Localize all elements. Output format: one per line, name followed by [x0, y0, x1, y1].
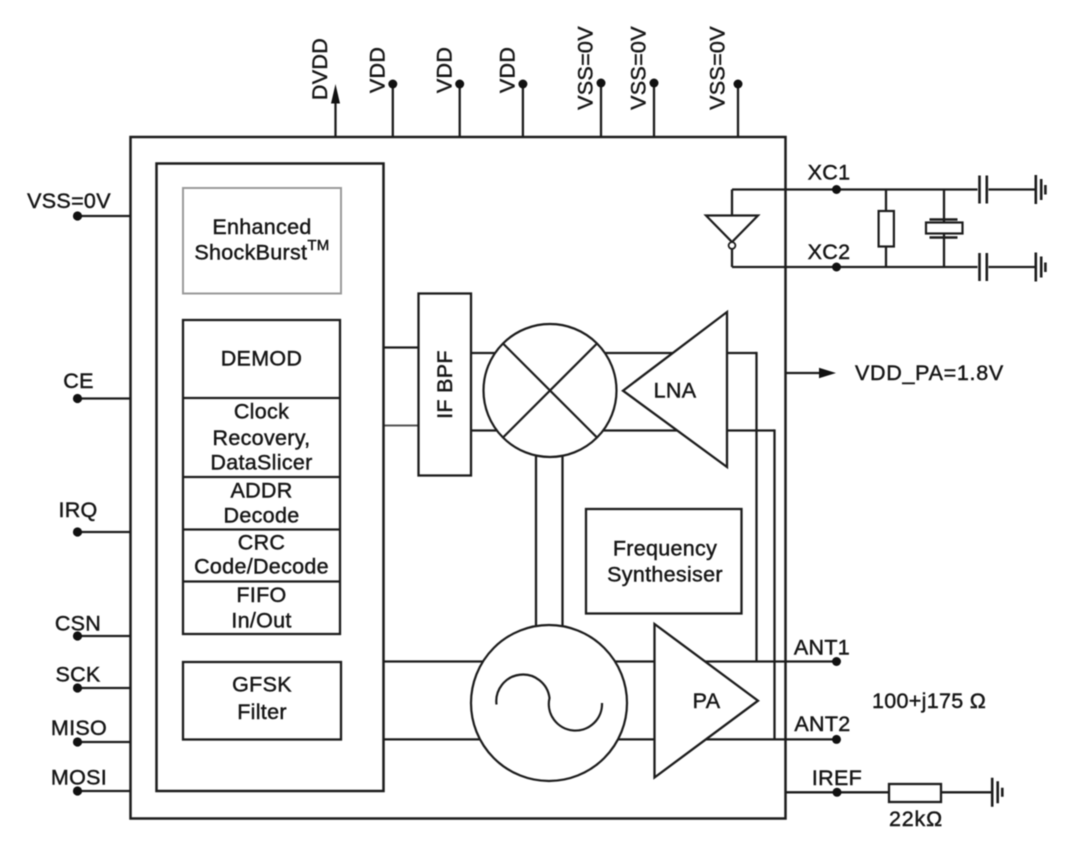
crystal Y1 top plate — [930, 218, 958, 220]
svg-text:In/Out: In/Out — [231, 609, 291, 633]
wire mixer LO left vertical — [535, 445, 537, 640]
VDD_PA arrowhead — [819, 368, 836, 378]
wire ANT1 net horizontal — [384, 660, 837, 662]
svg-text:MOSI: MOSI — [51, 766, 107, 790]
inverter output wire — [731, 249, 733, 267]
svg-text:VSS=0V: VSS=0V — [27, 189, 111, 213]
svg-text:VDD: VDD — [496, 47, 520, 93]
svg-text:ANT1: ANT1 — [794, 636, 850, 660]
svg-text:VSS=0V: VSS=0V — [706, 26, 730, 110]
svg-text:GFSK: GFSK — [232, 673, 292, 697]
pin VSS 3 top — [737, 84, 739, 137]
svg-text:Enhanced: Enhanced — [212, 215, 311, 239]
svg-text:VDD: VDD — [432, 47, 456, 93]
pin MOSI — [78, 790, 131, 792]
wire baseband to IF BPF lower — [384, 425, 419, 427]
pin CSN — [78, 635, 131, 637]
mixer X1 — [484, 324, 617, 457]
amplifier LNA — [623, 312, 727, 467]
ground for C1 — [1036, 175, 1046, 204]
svg-text:MISO: MISO — [51, 716, 107, 740]
svg-text:CRC: CRC — [238, 531, 285, 555]
oscillator (VCO) — [471, 625, 627, 781]
svg-text:ANT2: ANT2 — [794, 712, 850, 736]
crystal Y1 wire — [943, 190, 945, 268]
node XC1 — [832, 185, 841, 194]
crystal Y1 bottom plate — [930, 236, 958, 238]
svg-text:22kΩ: 22kΩ — [889, 807, 943, 831]
pin CE — [78, 397, 131, 399]
block IF BPF — [419, 294, 472, 476]
wire XC2 net — [732, 266, 1035, 268]
svg-text:DataSlicer: DataSlicer — [210, 451, 312, 475]
svg-text:CSN: CSN — [55, 612, 101, 636]
pin SCK — [78, 687, 131, 689]
pin VSS 2 top — [653, 83, 655, 137]
svg-text:LNA: LNA — [654, 379, 697, 403]
svg-text:Recovery,: Recovery, — [213, 426, 311, 450]
pin DVDD wire with arrow — [334, 102, 336, 137]
svg-text:VDD_PA=1.8V: VDD_PA=1.8V — [855, 361, 1004, 385]
svg-text:XC2: XC2 — [808, 240, 851, 264]
node ANT2 — [832, 735, 841, 744]
inverter crystal amp input wire — [731, 190, 733, 216]
node IREF — [833, 788, 842, 797]
capacitor C1 on XC1 — [980, 176, 987, 204]
pin VDD 3 — [522, 84, 524, 137]
svg-text:ADDR: ADDR — [230, 479, 292, 503]
wire IF-row bottom net — [471, 429, 775, 431]
wire LNA top output vertical to ANT1 — [755, 352, 757, 662]
pin MISO — [78, 741, 131, 743]
divider Clock/ADDR — [183, 476, 340, 478]
svg-text:FIFO: FIFO — [236, 583, 286, 607]
resistor R1 (bias) wire — [885, 190, 887, 268]
svg-text:VSS=0V: VSS=0V — [627, 26, 651, 110]
svg-text:DEMOD: DEMOD — [221, 347, 303, 371]
node XC2 — [832, 263, 841, 272]
amplifier PA — [655, 624, 759, 778]
inverter bubble — [729, 242, 736, 249]
block Frequency Synthesiser — [586, 509, 742, 614]
ground for R2 — [992, 778, 1002, 807]
wire ANT2 net horizontal — [384, 738, 837, 740]
svg-text:VDD: VDD — [366, 47, 390, 93]
VDD_PA output wire — [786, 372, 821, 374]
IREF output wire — [786, 791, 992, 793]
node ANT1 — [832, 657, 841, 666]
svg-text:XC1: XC1 — [808, 161, 851, 185]
inverter crystal amp — [706, 216, 758, 243]
wire IF-row top net (IF BPF to LNA output corner) — [471, 352, 757, 354]
svg-text:Decode: Decode — [224, 504, 300, 528]
svg-text:IREF: IREF — [812, 766, 862, 790]
svg-text:Code/Decode: Code/Decode — [194, 555, 329, 579]
svg-text:CE: CE — [63, 369, 93, 393]
pin VDD 1 — [392, 84, 394, 137]
digital baseband inner box — [157, 164, 384, 792]
pin VSS=0V left — [78, 215, 131, 217]
divider ADDR/CRC — [183, 528, 340, 530]
block Enhanced ShockBurst U1 — [183, 188, 341, 294]
svg-text:DVDD: DVDD — [308, 38, 332, 100]
pin VSS 1 top — [600, 83, 602, 137]
wire mixer LO right vertical — [561, 445, 563, 640]
wire baseband to IF BPF upper — [384, 346, 419, 348]
divider CRC/FIFO — [183, 580, 340, 582]
pin IRQ — [78, 531, 131, 533]
svg-text:100+j175 Ω: 100+j175 Ω — [872, 689, 986, 713]
block GFSK Filter — [183, 662, 341, 740]
chip outer boundary box — [131, 137, 786, 819]
svg-text:Frequency: Frequency — [613, 537, 717, 561]
resistor R2 22k body — [889, 784, 941, 802]
svg-text:Clock: Clock — [234, 400, 289, 424]
block digital stack (DEMOD / Clock Recovery / ADDR / CRC / FIFO) — [183, 320, 340, 634]
crystal Y1 body — [926, 223, 963, 234]
divider DEMOD/Clock — [183, 397, 340, 399]
svg-text:PA: PA — [693, 689, 721, 713]
svg-text:Filter: Filter — [237, 700, 287, 724]
resistor R1 body — [879, 211, 894, 247]
wire XC1 net — [732, 188, 1035, 190]
svg-text:Synthesiser: Synthesiser — [607, 563, 723, 587]
ground for C2 — [1036, 253, 1046, 282]
svg-text:VSS=0V: VSS=0V — [574, 26, 598, 110]
pin VDD 2 — [459, 84, 461, 137]
svg-text:SCK: SCK — [55, 663, 100, 687]
svg-text:IRQ: IRQ — [58, 498, 97, 522]
wire LNA bottom output vertical to ANT2 — [773, 429, 775, 739]
capacitor C2 on XC2 — [980, 253, 987, 281]
svg-text:IF BPF: IF BPF — [433, 350, 457, 419]
